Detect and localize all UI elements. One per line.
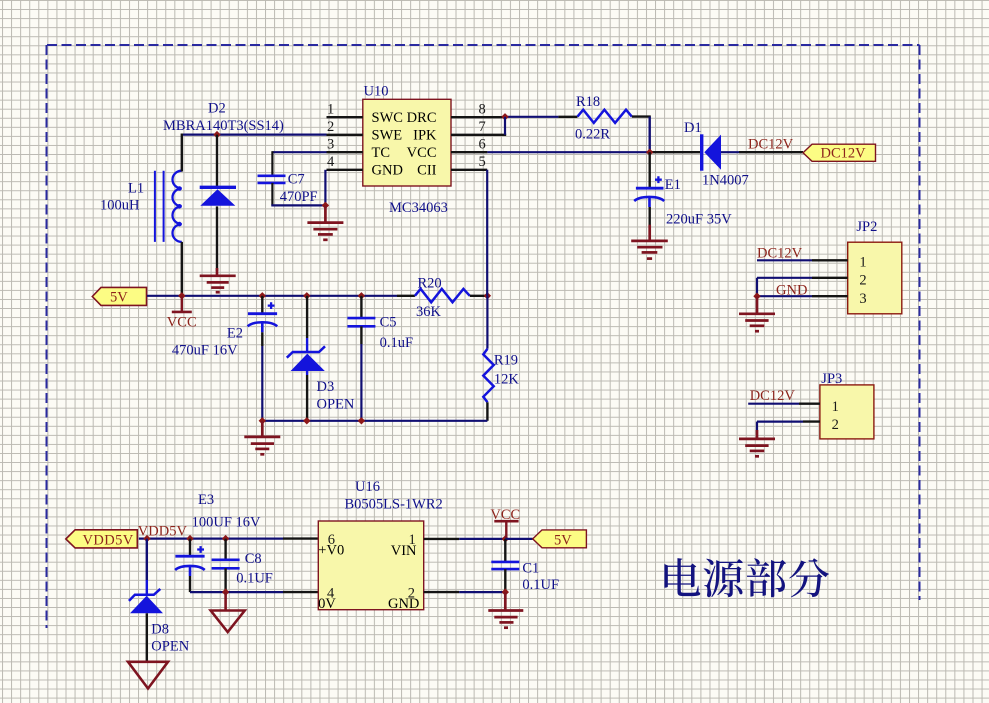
JP2 pin 2 wire [757, 277, 812, 279]
dashed sheet border top [47, 44, 920, 46]
port DC12V [803, 144, 876, 161]
svg-text:IPK: IPK [413, 127, 437, 143]
wire R20 right pin [470, 295, 488, 297]
wire bottom gnd rail [262, 420, 487, 422]
svg-text:MC34063: MC34063 [389, 200, 448, 216]
wire D1 to port [721, 151, 739, 153]
junction dot E1 node [646, 149, 653, 156]
svg-text:DRC: DRC [407, 110, 437, 126]
wire pin4 vertical [324, 170, 326, 206]
svg-text:1: 1 [832, 399, 839, 415]
junction dot D2 node [213, 131, 220, 138]
svg-text:E1: E1 [665, 177, 681, 193]
power port VCC [167, 296, 197, 331]
svg-text:JP2: JP2 [856, 219, 877, 235]
port 5V right [533, 530, 587, 549]
svg-text:3: 3 [327, 137, 334, 153]
ground under E1 [631, 225, 668, 259]
svg-text:2: 2 [859, 272, 866, 288]
svg-text:B0505LS-1WR2: B0505LS-1WR2 [345, 496, 443, 512]
svg-text:0.1uF: 0.1uF [380, 335, 413, 351]
svg-text:U16: U16 [355, 479, 380, 495]
ground JP2 [739, 296, 775, 331]
svg-text:C8: C8 [245, 551, 262, 567]
svg-text:VDD5V: VDD5V [83, 532, 134, 548]
capacitor C1 [491, 539, 519, 592]
svg-text:2: 2 [327, 119, 334, 135]
svg-text:5V: 5V [110, 290, 128, 306]
U16 pin2 wire [424, 591, 460, 593]
wire pin5 vertical [486, 170, 488, 296]
svg-text:DC12V: DC12V [748, 137, 794, 153]
power port VCC right [490, 507, 520, 539]
capacitor E2 [248, 296, 278, 421]
U10 pin 5 [451, 154, 487, 170]
svg-text:E3: E3 [198, 492, 214, 508]
regulator U16 body [318, 521, 424, 612]
svg-text:MBRA140T3(SS14): MBRA140T3(SS14) [163, 118, 284, 134]
inductor L1 [155, 171, 182, 242]
wire JP3 pin2 down [756, 422, 758, 430]
connector JP2 [848, 242, 902, 314]
ground triangle D8 [128, 662, 168, 689]
ground under C1 [488, 592, 523, 628]
svg-text:R19: R19 [494, 353, 518, 369]
U10 pin 6 [451, 137, 487, 153]
port VDD5V [66, 530, 138, 549]
junction dot C8 [222, 535, 229, 542]
svg-text:SWC: SWC [372, 110, 403, 126]
svg-text:D1: D1 [684, 120, 702, 136]
svg-text:6: 6 [328, 532, 335, 548]
svg-text:OPEN: OPEN [317, 396, 355, 412]
svg-text:CII: CII [417, 163, 437, 179]
svg-text:GND: GND [776, 282, 807, 298]
wire pin8 to pin7 vertical [504, 117, 506, 135]
junction dot E2 at rail [259, 292, 266, 299]
junction dot C1 bottom [502, 588, 509, 595]
svg-text:5: 5 [479, 154, 486, 170]
capacitor C5 [347, 296, 375, 421]
junction dot E3 [186, 535, 193, 542]
junction dot VCC node [502, 535, 509, 542]
svg-text:2: 2 [832, 417, 839, 433]
svg-text:DC12V: DC12V [757, 246, 803, 262]
diode D1 [702, 134, 721, 170]
svg-text:D2: D2 [208, 101, 226, 117]
svg-text:C1: C1 [522, 561, 539, 577]
svg-text:12K: 12K [494, 372, 520, 388]
svg-text:2: 2 [408, 585, 415, 601]
wire R18 left pin [558, 116, 577, 118]
wire L1 top [181, 134, 183, 172]
capacitor C8 [212, 539, 240, 593]
svg-text:TC: TC [372, 145, 391, 161]
ground under C7 node [307, 205, 343, 239]
resistor R20 [415, 289, 470, 302]
junction dot pin8 [501, 113, 508, 120]
svg-text:100uH: 100uH [100, 198, 140, 214]
svg-text:C5: C5 [380, 314, 397, 330]
svg-text:D8: D8 [151, 622, 169, 638]
svg-text:C7: C7 [288, 172, 305, 188]
wire D2 node to pin2 [182, 134, 327, 136]
svg-text:E2: E2 [227, 326, 243, 342]
JP3 pin 1 wire [748, 403, 799, 405]
wire C7 vertical top [271, 151, 273, 175]
svg-text:0.1UF: 0.1UF [236, 571, 273, 587]
U10 pin 1 [327, 102, 363, 118]
JP3 pin 2 wire [757, 421, 803, 423]
svg-text:R20: R20 [418, 276, 442, 292]
U10 pin 3 [327, 137, 363, 153]
wire pin8 node to R18 [505, 116, 558, 118]
junction dot pin4 node [322, 202, 329, 209]
U10 pin 2 [327, 119, 363, 135]
junction dot D3 at rail [303, 292, 310, 299]
wire R19 bottom pin [486, 402, 488, 421]
JP2 pin 1 wire [757, 259, 812, 261]
svg-text:VCC: VCC [407, 145, 437, 161]
svg-text:1: 1 [409, 532, 416, 548]
JP2 pin 3 wire [757, 295, 812, 297]
svg-text:R18: R18 [576, 94, 600, 110]
svg-text:3: 3 [859, 291, 866, 307]
svg-text:SWE: SWE [372, 127, 403, 143]
diode D2 [200, 135, 236, 271]
junction dot E2 bottom [259, 417, 266, 424]
ground bottom rail [244, 421, 280, 455]
svg-text:DC12V: DC12V [821, 146, 867, 162]
svg-text:L1: L1 [128, 181, 144, 197]
ground JP3 [739, 430, 775, 456]
U10 pin 8 [451, 102, 503, 118]
svg-text:1N4007: 1N4007 [702, 173, 749, 189]
ground under D2 [200, 268, 236, 292]
svg-text:100UF 16V: 100UF 16V [192, 514, 261, 530]
dashed sheet border right [919, 45, 921, 600]
wire R19 top [486, 296, 488, 349]
wire R18 right pin [632, 115, 651, 117]
svg-text:GND: GND [372, 163, 403, 179]
wire VCC node to 5V port [505, 538, 532, 540]
svg-text:DC12V: DC12V [750, 388, 796, 404]
svg-text:0.22R: 0.22R [575, 127, 610, 143]
svg-text:4: 4 [327, 154, 335, 170]
svg-text:1: 1 [859, 255, 866, 271]
wire U16 pin4 stub [283, 591, 318, 593]
svg-text:1: 1 [327, 102, 334, 118]
svg-text:8: 8 [479, 102, 486, 118]
capacitor C7 [258, 176, 286, 183]
wire R20 left pin [397, 295, 415, 297]
wire R18 down to node [649, 117, 651, 153]
diode D8 zener [129, 539, 163, 662]
port 5V left [92, 287, 146, 305]
svg-text:470PF: 470PF [280, 189, 318, 205]
svg-text:220uF 35V: 220uF 35V [666, 212, 732, 228]
wire pin6 to D1 [487, 151, 649, 153]
svg-text:4: 4 [327, 585, 335, 601]
title 电源部分 [664, 558, 829, 597]
svg-text:0.1UF: 0.1UF [522, 577, 559, 593]
svg-text:6: 6 [479, 137, 486, 153]
svg-text:VCC: VCC [167, 315, 197, 331]
wire JP2 pin2 down [756, 278, 758, 296]
wire C7 to pin4 node [271, 204, 325, 206]
svg-text:VCC: VCC [490, 507, 520, 523]
wire E3 to U16 pin4 [190, 591, 283, 593]
ground triangle C8 [211, 592, 245, 632]
junction dot D3 bottom [303, 417, 310, 424]
svg-text:470uF 16V: 470uF 16V [172, 343, 238, 359]
svg-text:5V: 5V [554, 533, 572, 549]
op-amp U10 MC34063 body [363, 99, 451, 186]
junction dot C5 bottom [358, 417, 365, 424]
junction dot C5 at rail [358, 292, 365, 299]
resistor R19 [483, 349, 493, 403]
junction dot L1 at rail [178, 292, 185, 299]
svg-text:36K: 36K [416, 304, 442, 320]
U10 pin 4 [327, 154, 363, 170]
capacitor E3 [175, 539, 205, 593]
wire 5V rail [147, 295, 397, 297]
wire C7 vertical bottom [271, 183, 273, 206]
svg-text:OPEN: OPEN [151, 639, 189, 655]
wire pin3 to C7 branch [272, 151, 326, 153]
svg-text:U10: U10 [364, 84, 389, 100]
junction dot D8 [143, 535, 150, 542]
wire VDD5V rail [139, 537, 283, 539]
svg-text:7: 7 [479, 119, 486, 135]
connector JP3 [820, 385, 874, 439]
resistor R18 [578, 110, 632, 123]
U10 pin 7 [451, 119, 506, 135]
U16 pin1 wire [424, 538, 460, 540]
diode D3 zener [287, 296, 325, 421]
wire L1 bottom [181, 242, 183, 296]
junction dot C8 bottom [222, 588, 229, 595]
junction dot R20 R19 [484, 292, 491, 299]
capacitor E1 [634, 152, 664, 226]
dashed sheet border left [46, 45, 48, 628]
junction dot JP2 gnd [753, 293, 760, 300]
wire U16 pin6 stub [283, 537, 318, 539]
svg-text:D3: D3 [317, 379, 335, 395]
